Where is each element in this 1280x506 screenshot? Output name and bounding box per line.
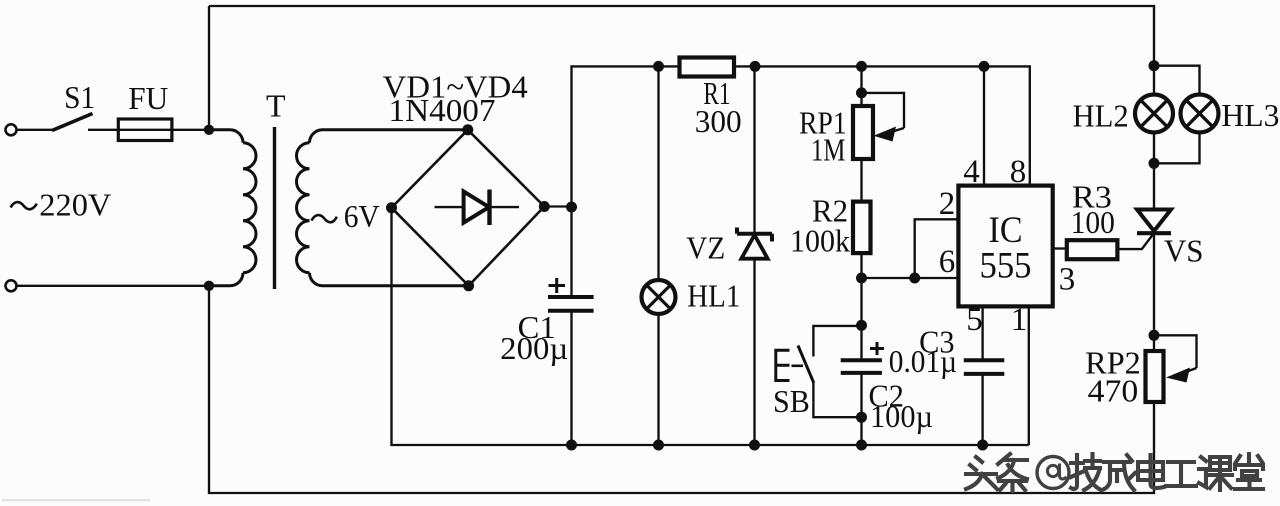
wire C1 to ground bus: [570, 311, 572, 445]
node HL1 ground: [653, 440, 664, 451]
svg-text:300: 300: [695, 103, 742, 139]
wire RP1 R2 branch: [860, 66, 862, 445]
wire zener branch: [753, 66, 755, 445]
node pin 4 supply: [979, 61, 990, 72]
wire SB bottom: [813, 383, 861, 417]
wire S1 to node A: [88, 129, 209, 131]
bridge rectifier VD1~VD4 diamond: [392, 130, 545, 286]
svg-text:SB: SB: [773, 383, 810, 419]
svg-text:220V: 220V: [39, 187, 111, 223]
node supply RP1: [856, 61, 867, 72]
svg-text:S1: S1: [64, 79, 95, 115]
capacitor C2: [841, 360, 882, 373]
node DC plus: [566, 202, 577, 213]
svg-text:100: 100: [1071, 204, 1115, 240]
wire neutral down and bottom border: [209, 286, 1154, 493]
wire terminal to S1: [17, 129, 54, 131]
svg-text:T: T: [266, 88, 286, 124]
potentiometer RP1: [853, 106, 873, 159]
svg-text:1M: 1M: [811, 132, 845, 168]
capacitor C1 plus sign: [549, 278, 566, 293]
node B neutral: [204, 281, 214, 291]
zener diode VZ: [741, 235, 767, 259]
bridge diode symbol: [435, 206, 520, 208]
svg-text:1: 1: [1011, 302, 1028, 338]
capacitor C1: [548, 297, 594, 311]
wire pin 2: [915, 219, 959, 278]
node R1 left: [653, 61, 664, 72]
transformer core: [273, 127, 276, 289]
node bridge top: [462, 124, 473, 135]
wire VS cathode down: [1153, 233, 1155, 351]
wire RP1 wiper: [862, 93, 905, 128]
wire HL1 branch: [657, 66, 659, 445]
svg-text:HL1: HL1: [687, 278, 740, 314]
wire HL3 branch: [1154, 66, 1200, 164]
wire DC plus down to C1: [570, 207, 572, 297]
svg-text:8: 8: [1010, 154, 1027, 190]
terminal lower-left: [6, 280, 17, 291]
wire SB top: [813, 326, 861, 357]
wire VS anode: [1153, 163, 1155, 209]
potentiometer RP2: [1146, 351, 1164, 402]
svg-text:HL3: HL3: [1221, 97, 1279, 133]
svg-text:555: 555: [980, 246, 1032, 287]
svg-text:1N4007: 1N4007: [389, 92, 496, 128]
wire bridge right node to DC plus: [544, 205, 571, 207]
node C1 ground: [566, 440, 577, 451]
switch S1: [52, 114, 93, 131]
wire left frame: [208, 6, 210, 130]
wire pin 1: [1028, 306, 1030, 445]
potentiometer RP1 arrow: [888, 128, 904, 133]
svg-text:3: 3: [1059, 262, 1076, 298]
svg-text:0.01µ: 0.01µ: [889, 343, 957, 379]
svg-text:VZ: VZ: [686, 230, 725, 266]
wire pin 4: [983, 66, 985, 185]
wire RP2 wiper: [1154, 335, 1197, 368]
wire pin 5: [981, 306, 983, 360]
terminal upper-left: [6, 124, 17, 135]
svg-text:100k: 100k: [790, 223, 850, 259]
thyristor VS: [1137, 210, 1171, 232]
node lamp top: [1149, 60, 1160, 71]
label ~6V: [312, 215, 337, 222]
node RP1 wiper tap: [856, 87, 867, 98]
node C2 ground: [856, 440, 867, 451]
svg-text:6: 6: [939, 244, 956, 280]
node R2 bottom pin6: [856, 273, 867, 284]
svg-text:6V: 6V: [344, 198, 380, 234]
potentiometer RP2 arrow: [1183, 368, 1197, 373]
svg-text:FU: FU: [128, 80, 168, 116]
node R1 right: [750, 61, 761, 72]
wire HL2 branch: [1153, 66, 1155, 164]
svg-text:200µ: 200µ: [500, 330, 568, 366]
wire neutral to node B: [17, 285, 210, 287]
node SB top: [856, 320, 867, 331]
wire R3 to gate: [1117, 235, 1152, 249]
resistor R3: [1067, 240, 1118, 259]
watermark toutiao: [966, 454, 1263, 491]
node bridge right: [539, 201, 550, 212]
resistor R1: [680, 58, 735, 77]
wire pin 6: [862, 277, 959, 279]
label ~220V: [11, 202, 37, 209]
node A fused live: [204, 125, 214, 135]
node VZ ground: [749, 440, 760, 451]
node C3 ground: [977, 440, 988, 451]
svg-text:100µ: 100µ: [870, 398, 933, 434]
resistor R2: [853, 202, 871, 254]
node lamp bottom: [1149, 158, 1160, 169]
node pin2 pin6 junction: [909, 273, 920, 284]
svg-text:2: 2: [939, 186, 956, 222]
node SB bottom: [856, 412, 867, 423]
capacitor C3: [964, 360, 1005, 374]
IC 555: [958, 186, 1052, 307]
lamp HL2: [1135, 95, 1173, 133]
node RP2 wiper tap: [1149, 330, 1160, 341]
transformer T secondary winding: [297, 130, 469, 286]
node bridge bottom: [463, 280, 474, 291]
svg-text:VS: VS: [1164, 233, 1204, 269]
lamp HL1: [642, 280, 676, 314]
pushbutton SB actuator: [776, 350, 790, 380]
wire C3 to ground bus: [981, 374, 983, 445]
transformer T primary winding: [209, 130, 256, 286]
svg-text:5: 5: [966, 302, 983, 338]
lamp HL3: [1181, 95, 1219, 133]
node bridge left: [386, 202, 397, 213]
faint ghost mark bottom left: [2, 499, 150, 501]
wire positive rail: [572, 66, 1030, 207]
wire bridge left node to ground bus: [392, 208, 1029, 445]
svg-text:4: 4: [963, 154, 980, 190]
svg-text:470: 470: [1088, 373, 1139, 409]
capacitor C2 plus sign: [870, 342, 884, 355]
svg-text:HL2: HL2: [1072, 98, 1128, 134]
wire pin 3 to R3: [1053, 247, 1067, 249]
pushbutton SB contact: [798, 346, 814, 384]
wire top border: [209, 6, 1154, 66]
fuse FU: [118, 119, 172, 141]
